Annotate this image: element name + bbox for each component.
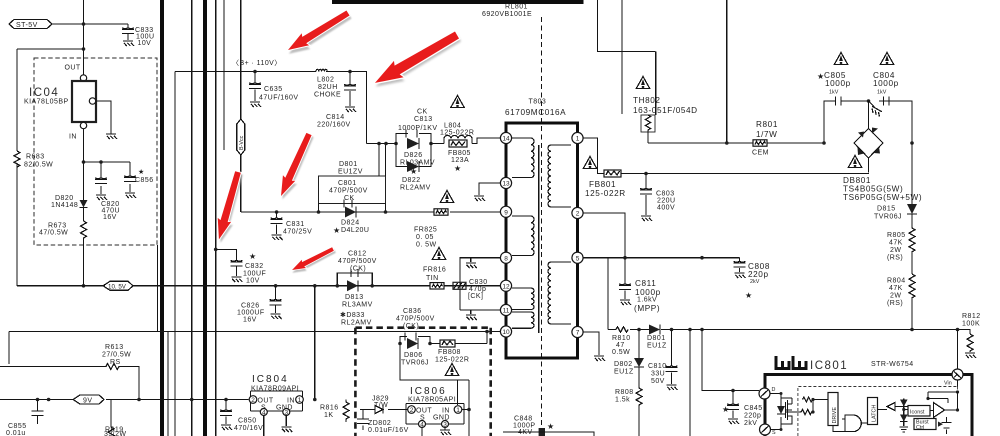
- svg-text:123A: 123A: [451, 157, 469, 164]
- wire pin9 row: [241, 211, 500, 213]
- svg-text:CEM: CEM: [752, 150, 769, 157]
- svg-text:R801: R801: [756, 120, 778, 129]
- wire D820 to R673: [83, 208, 85, 222]
- svg-text:1000UF: 1000UF: [237, 310, 265, 317]
- svg-text:RL801: RL801: [505, 4, 528, 11]
- op-amp IC806 KIA78R05API: [406, 386, 464, 436]
- svg-text:10V: 10V: [138, 40, 152, 47]
- svg-text:0.5W: 0.5W: [612, 349, 630, 356]
- ground C810: [667, 385, 678, 390]
- wire vertical rail x=224 (upper stub): [223, 0, 225, 150]
- node junction x=726: [725, 141, 729, 145]
- wire x=379 down to C801 box: [378, 144, 380, 177]
- op-amp IC804 KIA78R09API: [249, 374, 303, 436]
- svg-text:D820: D820: [55, 195, 74, 202]
- ground pin11: [466, 315, 477, 320]
- logic block DRIVE: [828, 393, 838, 426]
- svg-text:5: 5: [576, 255, 580, 262]
- node 9V flag: [73, 395, 104, 405]
- node junction 10.5V row: [82, 284, 86, 288]
- dashed box IC04 module: [34, 58, 157, 245]
- svg-text:16V: 16V: [103, 214, 117, 221]
- node junction C826: [274, 284, 278, 288]
- svg-text:[CK]: [CK]: [468, 293, 483, 300]
- svg-text:C801: C801: [338, 180, 357, 187]
- svg-text:47: 47: [616, 342, 625, 349]
- svg-text:C803: C803: [656, 191, 675, 198]
- svg-text:FR816: FR816: [423, 267, 446, 274]
- ground C808: [735, 273, 746, 278]
- svg-text:D815: D815: [877, 206, 896, 213]
- wire cap row top: [824, 101, 912, 143]
- node junction C803: [644, 172, 648, 176]
- svg-text:16V: 16V: [243, 317, 257, 324]
- winding secondary 5-7: [548, 262, 571, 324]
- wire IC801 Vin vertical: [957, 380, 959, 387]
- winding primary 9-8: [512, 216, 534, 256]
- svg-text:★: ★: [722, 405, 729, 414]
- ground R812: [965, 353, 976, 358]
- wire vertical rail x=191: [191, 0, 193, 436]
- node junction D813 left: [336, 284, 340, 288]
- svg-text:2W: 2W: [890, 293, 901, 300]
- node junction ST-5V: [82, 22, 86, 26]
- resistor R801 1/7W CEM: [752, 120, 825, 157]
- wire thick top border line: [332, 0, 584, 4]
- svg-text:IC04: IC04: [29, 87, 59, 99]
- svg-text:470P/500V: 470P/500V: [396, 316, 435, 323]
- logic block Iconst: [908, 406, 934, 417]
- diode D824 D4L20U: [333, 207, 373, 236]
- wire left rail to 10.5V: [17, 49, 84, 286]
- node junction R613: [137, 398, 141, 402]
- svg-text:12: 12: [502, 283, 510, 290]
- svg-text:0. 05: 0. 05: [416, 234, 434, 241]
- resistor R816 1K: [320, 400, 349, 423]
- wire pin13 to ground: [479, 183, 500, 195]
- svg-text:1.5k: 1.5k: [615, 397, 630, 404]
- node junction on 9V row: [313, 398, 317, 402]
- svg-text:1kV: 1kV: [877, 90, 887, 96]
- svg-text:(RS): (RS): [887, 255, 903, 262]
- winding 11-10: [512, 312, 534, 328]
- svg-text:C836: C836: [403, 308, 422, 315]
- svg-text:27/0.5W: 27/0.5W: [102, 352, 131, 359]
- node junction x=431: [429, 142, 433, 146]
- capacitor C635: [249, 72, 298, 102]
- node junction x=379: [377, 142, 381, 146]
- svg-text:82/0.5W: 82/0.5W: [24, 162, 53, 169]
- svg-text:2kV: 2kV: [750, 279, 760, 285]
- svg-text:EU1Z: EU1Z: [614, 369, 634, 376]
- winding primary 14-13: [512, 138, 534, 178]
- svg-text:Iconst: Iconst: [910, 410, 925, 416]
- wire D806 row: [400, 344, 487, 406]
- ground pin7: [594, 356, 605, 361]
- svg-text:✱D833: ✱D833: [340, 311, 365, 319]
- inductor L802 choke: [314, 69, 341, 98]
- wire IC04 N pin to ground: [96, 101, 111, 134]
- svg-text:C826: C826: [241, 303, 260, 310]
- svg-text:★: ★: [454, 164, 461, 173]
- ground C833: [123, 41, 134, 46]
- svg-text:T803: T803: [529, 99, 547, 106]
- svg-text:RL2AMV: RL2AMV: [341, 320, 372, 327]
- svg-text:100K: 100K: [962, 321, 980, 328]
- svg-text:IN: IN: [442, 408, 450, 415]
- svg-text:1.6kV: 1.6kV: [637, 297, 657, 304]
- svg-text:〈B+ · 110V〉: 〈B+ · 110V〉: [232, 59, 282, 67]
- svg-text:OUT: OUT: [258, 398, 274, 405]
- svg-text:★: ★: [745, 291, 752, 300]
- ground IC804: [281, 427, 292, 432]
- node junction bridge right: [910, 141, 914, 145]
- svg-text:1: 1: [576, 136, 580, 143]
- svg-text:D822: D822: [402, 177, 421, 184]
- transistor Q drain terminal circle: [759, 387, 776, 399]
- logic gate AND: [833, 415, 868, 432]
- ground pin8: [466, 263, 477, 268]
- svg-text:470P/500V: 470P/500V: [329, 188, 368, 195]
- node junction D802: [637, 328, 641, 332]
- svg-text:400V: 400V: [657, 205, 675, 212]
- svg-text:2: 2: [251, 397, 255, 404]
- node junction C810: [670, 328, 674, 332]
- wire vertical rail x=726: [726, 0, 728, 143]
- svg-text:B-Vcc: B-Vcc: [239, 135, 245, 150]
- resistor R619: [104, 400, 126, 436]
- transistor Q source terminal circle: [760, 424, 777, 436]
- wire pin5 row: [583, 257, 739, 259]
- diode D801 EU1Z: [647, 325, 667, 350]
- svg-text:R805: R805: [887, 232, 906, 239]
- node junction x=702 row: [700, 328, 704, 332]
- svg-text:TH802: TH802: [633, 96, 661, 105]
- capacitor C811 1000p MPP: [619, 258, 661, 313]
- wire vertical rail x=621: [621, 0, 623, 114]
- dashed box IC801 internal: [798, 387, 958, 436]
- pin 8: [500, 252, 511, 263]
- svg-text:10V: 10V: [246, 278, 260, 285]
- svg-text:C811: C811: [635, 279, 656, 288]
- wire x=957 to IC801 Vin terminal: [957, 330, 959, 370]
- svg-text:D813: D813: [345, 294, 364, 301]
- node junction IN: [467, 408, 471, 412]
- wire junction row to C856: [84, 161, 131, 163]
- svg-text:220/160V: 220/160V: [317, 122, 351, 129]
- node junction bridge left: [822, 141, 826, 145]
- svg-text:RL3AMV: RL3AMV: [342, 302, 373, 309]
- svg-text:(RS): (RS): [887, 300, 903, 307]
- svg-text:C832: C832: [245, 263, 264, 270]
- svg-text:L804: L804: [444, 123, 461, 130]
- arrow annotation A2: [370, 27, 464, 95]
- resistor R812 100K: [962, 313, 981, 352]
- node junction x=702: [700, 256, 704, 260]
- wire pin2 branch: [583, 213, 625, 258]
- svg-text:4: 4: [262, 410, 266, 417]
- svg-text:GND: GND: [433, 415, 450, 422]
- node junction x=911: [910, 328, 914, 332]
- node junction x=690: [688, 328, 692, 332]
- node ST-5V flag: [9, 20, 52, 30]
- svg-text:EU1Z: EU1Z: [647, 343, 667, 350]
- capacitor C813 CK: [396, 96, 464, 144]
- svg-text:82UH: 82UH: [318, 84, 338, 91]
- svg-text:4: 4: [420, 422, 424, 429]
- svg-text:ST-5V: ST-5V: [16, 22, 38, 29]
- wire hot bus thick bar right: [203, 0, 207, 436]
- wire pin8 row with ground: [460, 258, 500, 310]
- svg-text:Ctrl: Ctrl: [916, 425, 924, 431]
- inductor L804 / FB805 parallel: [440, 123, 474, 174]
- ground C850: [221, 425, 232, 430]
- svg-text:★: ★: [410, 167, 417, 176]
- ground cap mid: [869, 101, 883, 117]
- svg-text:61709MC016A: 61709MC016A: [505, 108, 566, 117]
- ground C803: [641, 216, 652, 221]
- resistor R804 47K 2W (RS): [887, 274, 915, 330]
- diode D813 RL3AMV: [340, 280, 373, 326]
- svg-text:1000P/1KV: 1000P/1KV: [398, 125, 437, 132]
- diode internal pair: [900, 399, 909, 433]
- warning triangle FB801: [583, 157, 597, 169]
- svg-text:9: 9: [504, 209, 508, 216]
- svg-text:C845: C845: [744, 405, 763, 412]
- svg-text:125-022R: 125-022R: [435, 357, 469, 364]
- pin 10: [500, 326, 511, 337]
- capacitor C820: [95, 162, 120, 221]
- wire x=702 to IC801 gate node: [702, 330, 759, 391]
- node Vin terminal: [944, 369, 963, 387]
- wire pin10 to FB808 corner: [486, 332, 488, 344]
- capacitor C804: [873, 53, 899, 106]
- svg-text:2: 2: [410, 407, 414, 414]
- arrow annotation A5: [290, 245, 337, 277]
- svg-text:EU1ZV: EU1ZV: [338, 169, 363, 176]
- svg-text:KIA78R05API: KIA78R05API: [408, 397, 456, 404]
- zener ZD802: [357, 410, 409, 435]
- svg-text:2: 2: [576, 211, 580, 218]
- ground pin13: [474, 196, 485, 201]
- wire vertical rail x=215.7: [215, 0, 217, 436]
- svg-text:47UF/160V: 47UF/160V: [259, 95, 298, 102]
- svg-text:TS6P05G(5W+5W): TS6P05G(5W+5W): [843, 193, 922, 202]
- svg-text:D824: D824: [341, 220, 360, 227]
- diode D815 TVR06J: [874, 143, 917, 221]
- winding 12-11: [512, 288, 534, 310]
- ground C820: [96, 195, 107, 200]
- svg-text:C635: C635: [264, 86, 283, 93]
- svg-text:1N4148: 1N4148: [51, 202, 78, 209]
- resistor gate internal: [786, 397, 828, 415]
- svg-text:470/25V: 470/25V: [283, 229, 312, 236]
- svg-text:1000p: 1000p: [825, 79, 851, 88]
- svg-text:STR-W6754: STR-W6754: [871, 361, 914, 368]
- diode D806 TVR06J: [401, 338, 429, 367]
- arrow annotation A1: [284, 7, 353, 60]
- svg-text:C812: C812: [348, 251, 367, 258]
- svg-text:47K: 47K: [889, 285, 903, 292]
- svg-text:1kV: 1kV: [829, 90, 839, 96]
- svg-text:C856: C856: [135, 177, 154, 184]
- pin 12: [500, 280, 511, 291]
- svg-text:(MPP): (MPP): [634, 304, 660, 313]
- capacitor C808 220p 2kV: [734, 258, 770, 300]
- svg-text:D802: D802: [614, 361, 633, 368]
- pin 7: [572, 326, 583, 337]
- node junction rail 192: [190, 398, 194, 402]
- wire horizontal y=333: [9, 245, 500, 436]
- svg-text:ZD802: ZD802: [368, 420, 391, 427]
- node junction C814: [348, 70, 352, 74]
- svg-text:125-022R: 125-022R: [585, 189, 626, 198]
- node junction C850: [224, 398, 228, 402]
- wire dashed isolation center line: [541, 17, 543, 436]
- pin 2: [572, 207, 583, 218]
- capacitor C855: [6, 400, 44, 436]
- wire down to 9V row: [314, 286, 316, 400]
- node junction cap mid: [867, 99, 871, 103]
- transistor MOSFET internal: [781, 398, 792, 424]
- wire pin7 to ground: [583, 332, 599, 355]
- diode J829 T/W: [360, 396, 408, 414]
- capacitor C845 220p 2kV (star): [722, 391, 763, 428]
- svg-text:1000p: 1000p: [873, 79, 899, 88]
- svg-text:C831: C831: [286, 221, 305, 228]
- svg-text:TIN: TIN: [426, 275, 439, 282]
- node junction IN node: [82, 160, 86, 164]
- capacitor C803: [640, 174, 676, 216]
- wire vertical rail x=175 from B+ line down: [174, 72, 176, 436]
- diode D802 EU1Z: [614, 330, 644, 376]
- node junction C832 tap on rail: [214, 248, 218, 252]
- svg-text:470P/500V: 470P/500V: [338, 258, 377, 265]
- wire pin11 row with ground: [460, 310, 500, 314]
- node junction C635: [253, 70, 257, 74]
- wire IN pin down: [83, 129, 85, 200]
- node junction x=48: [47, 398, 51, 402]
- node junction x=396: [394, 142, 398, 146]
- svg-text:FR825: FR825: [414, 227, 437, 234]
- svg-text:★: ★: [547, 422, 554, 431]
- resistor R613 RS: [0, 344, 139, 400]
- diode body internal: [770, 392, 785, 431]
- capacitor C856: [124, 162, 154, 192]
- transformer T803 bobbin outline: [506, 123, 578, 358]
- svg-text:470p: 470p: [469, 286, 486, 293]
- fusible resistor FR816 TIN: [423, 248, 446, 289]
- svg-text:10. 5V: 10. 5V: [108, 283, 127, 290]
- svg-text:0.01uF/16V: 0.01uF/16V: [368, 427, 409, 434]
- battery ref internal: [942, 417, 952, 434]
- svg-text:8: 8: [504, 255, 508, 262]
- svg-text:C810: C810: [648, 363, 667, 370]
- svg-text:C848: C848: [514, 416, 533, 423]
- svg-text:R673: R673: [48, 223, 67, 230]
- svg-text:FB801: FB801: [589, 180, 616, 189]
- svg-text:R613: R613: [105, 344, 124, 351]
- node junction x=386: [384, 142, 388, 146]
- wire vertical x=83 from top: [83, 0, 85, 81]
- ground C832: [231, 277, 242, 282]
- node junction C811: [623, 256, 627, 260]
- capacitor C810 33U 50V: [648, 330, 678, 386]
- node junction C855: [36, 398, 40, 402]
- ferrite bead FB808 125-022R: [435, 340, 469, 376]
- svg-text:R683: R683: [26, 154, 45, 161]
- wire vertical rail x=240 to B-VCC flag: [240, 0, 242, 119]
- svg-text:47/0.5W: 47/0.5W: [39, 230, 68, 237]
- svg-text:CK: CK: [344, 195, 355, 202]
- svg-text:OUT: OUT: [416, 408, 432, 415]
- node B-VCC flag (vertical pill): [237, 119, 245, 155]
- fusible resistor FR825: [414, 191, 454, 249]
- svg-text:IC806: IC806: [410, 386, 447, 397]
- svg-text:★: ★: [333, 226, 340, 235]
- resistor R673: [39, 221, 87, 286]
- capacitor C830 (series): [453, 279, 488, 300]
- resistor R810 47 0.5W: [612, 327, 631, 356]
- wire x=608 drop to drive row: [607, 258, 609, 330]
- svg-text:33U: 33U: [651, 371, 665, 378]
- ground C831: [272, 235, 283, 240]
- svg-text:R812: R812: [962, 313, 981, 320]
- svg-text:13: 13: [502, 181, 510, 188]
- logic block LATCH: [864, 398, 888, 425]
- op-amp comparator triangle right: [926, 390, 959, 417]
- svg-text:L802: L802: [317, 77, 334, 84]
- capacitor C833: [122, 24, 155, 47]
- dashed box cold module: [355, 328, 490, 436]
- wire FB801 row to bridge: [621, 173, 869, 175]
- svg-text:1/7W: 1/7W: [756, 130, 778, 139]
- transformer core line: [538, 145, 540, 333]
- wire from B-VCC down to secondary row: [240, 155, 242, 212]
- resistor R805 47K 2W (RS): [887, 214, 915, 274]
- winding secondary 1-2: [548, 145, 571, 207]
- node junction box right: [384, 210, 388, 214]
- svg-text:FB805: FB805: [448, 150, 471, 157]
- svg-text:C813: C813: [414, 116, 433, 123]
- wire row y=143.5: [367, 138, 501, 144]
- svg-text:★: ★: [138, 168, 145, 176]
- svg-text:LATCH: LATCH: [872, 405, 878, 422]
- heatsink symbol IC801: [776, 356, 806, 369]
- wire hot bus thick bar left: [160, 0, 164, 436]
- svg-text:10: 10: [502, 329, 510, 336]
- capacitor C832 (star): [216, 249, 267, 284]
- svg-text:OUT: OUT: [65, 65, 81, 72]
- ground C845: [728, 419, 739, 424]
- ground IC806: [440, 430, 451, 435]
- node junction C831: [275, 210, 279, 214]
- logic block Burst control: [914, 419, 943, 431]
- svg-text:1K: 1K: [324, 412, 333, 419]
- svg-text:(CK): (CK): [350, 266, 366, 273]
- thermistor TH802: [633, 52, 698, 144]
- svg-text:R804: R804: [887, 278, 906, 285]
- diode D826 RL03AMV: [400, 138, 435, 167]
- ground C826: [271, 314, 282, 319]
- node junction D806 right: [428, 342, 432, 346]
- svg-text:IC801: IC801: [810, 360, 848, 372]
- svg-text:D806: D806: [404, 352, 423, 359]
- capacitor C831: [271, 212, 313, 236]
- svg-text:33/2W: 33/2W: [104, 431, 126, 436]
- svg-text:D4L20U: D4L20U: [341, 227, 369, 234]
- node junction to IC804 IN rail: [313, 284, 317, 288]
